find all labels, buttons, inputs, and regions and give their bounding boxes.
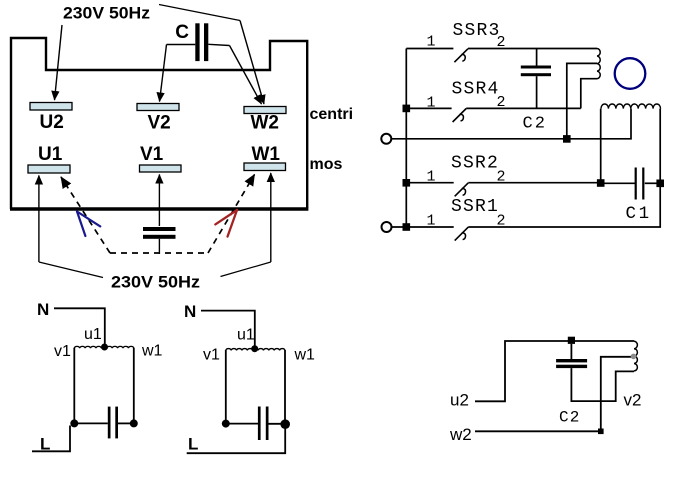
- wire arrow callout to W2: [240, 21, 264, 105]
- wire arrow up into U1: [38, 176, 40, 263]
- wire arrow cap to V2: [160, 45, 167, 102]
- wire N lead 2: [201, 311, 255, 346]
- terminal box bottom wall: [10, 207, 308, 210]
- svg-text:v1: v1: [54, 343, 71, 360]
- red direction arrow: [215, 210, 237, 237]
- dashed swap wire U1 side: [61, 177, 110, 253]
- svg-text:230V 50Hz: 230V 50Hz: [63, 5, 150, 23]
- wire C1 right lead: [645, 182, 660, 184]
- svg-text:W1: W1: [252, 144, 281, 165]
- terminal circle top: [381, 134, 391, 144]
- winding 2: [226, 349, 285, 351]
- svg-text:SSR4: SSR4: [452, 80, 500, 100]
- winding main (vertical): [597, 49, 600, 79]
- wire u2 lead: [475, 341, 634, 401]
- wire arrow up into W1: [270, 173, 272, 262]
- capacitor C2 (bottom diagram): [556, 359, 587, 368]
- switch SSR3 tail: [462, 54, 466, 61]
- junction SSR4 left: [403, 105, 411, 113]
- wire SSR3 right to coil: [468, 48, 597, 50]
- dashed swap wire W1 side: [208, 175, 255, 254]
- wire winding2 right leg: [284, 350, 286, 424]
- svg-text:u1: u1: [237, 327, 255, 344]
- wire cap right lead: [208, 44, 229, 45]
- terminal V2: [137, 104, 179, 111]
- wire SSR4 right: [466, 107, 581, 109]
- wire aux coil right lead: [659, 109, 661, 183]
- junction C1 left: [597, 179, 605, 187]
- wire below run capacitor: [158, 239, 160, 254]
- wire aux coil left lead: [600, 109, 602, 183]
- node cap left 2: [222, 420, 230, 428]
- svg-text:V1: V1: [140, 144, 164, 165]
- terminal circle bottom: [382, 222, 392, 232]
- svg-text:C2: C2: [523, 115, 547, 134]
- terminal W1: [244, 163, 286, 171]
- svg-text:230V 50Hz: 230V 50Hz: [111, 274, 200, 292]
- wire winding1 left leg: [73, 348, 75, 424]
- switch SSR2 blade: [455, 183, 469, 197]
- wire coil centre tap: [567, 63, 597, 138]
- switch SSR4 blade: [453, 109, 467, 123]
- winding v2 (vertical): [634, 341, 637, 371]
- winding aux (horizontal): [601, 104, 661, 109]
- wire SSR4 left: [406, 107, 451, 109]
- wire arrow 230V to U2: [55, 25, 63, 100]
- svg-text:centri: centri: [310, 106, 354, 123]
- terminal box outline: [11, 38, 307, 209]
- wire hook from coil bottom: [581, 79, 597, 109]
- wire SSR2 left: [406, 182, 453, 184]
- svg-text:w1: w1: [294, 347, 316, 364]
- node winding tap (gray): [631, 354, 637, 360]
- terminal U2: [30, 103, 72, 111]
- terminal V1: [140, 165, 182, 172]
- wire N lead: [54, 308, 105, 344]
- node u1 tap: [101, 344, 108, 351]
- svg-text:C1: C1: [626, 204, 652, 224]
- svg-text:w2: w2: [449, 425, 472, 444]
- wire arrow cap to W2: [230, 46, 262, 105]
- svg-text:C: C: [175, 22, 189, 43]
- wire L lead 1: [32, 426, 70, 452]
- switch SSR1 blade: [455, 227, 469, 241]
- wire U1 callout: [39, 262, 103, 278]
- junction SSR2 left: [403, 179, 411, 187]
- terminal W2: [244, 107, 286, 114]
- switch SSR2 tail: [462, 188, 466, 195]
- capacitor 2: [258, 407, 269, 441]
- terminal U1: [28, 165, 70, 173]
- wire SSR1 left: [392, 226, 454, 228]
- node u1 tap 2: [251, 345, 258, 352]
- svg-text:W2: W2: [251, 113, 280, 134]
- node cap right 2: [280, 419, 290, 429]
- wire L lead 2: [187, 424, 286, 453]
- wire cap 2 left lead: [226, 423, 259, 425]
- svg-text:SSR1: SSR1: [451, 197, 499, 217]
- junction coil tap: [563, 135, 571, 143]
- switch SSR3 blade: [454, 49, 468, 63]
- svg-text:U2: U2: [40, 112, 64, 133]
- capacitor C2 lead bottom: [536, 76, 538, 108]
- capacitor C2: [521, 66, 551, 77]
- capacitor C (top): [195, 23, 208, 61]
- node cap left 1: [70, 419, 78, 427]
- svg-text:w1: w1: [141, 343, 163, 360]
- svg-text:N: N: [184, 302, 196, 321]
- capacitor C1: [635, 168, 645, 200]
- wire arrow up into V1: [158, 175, 160, 227]
- svg-text:v2: v2: [624, 391, 642, 410]
- svg-text:L: L: [188, 435, 198, 454]
- wire cap 1 right lead: [118, 422, 134, 424]
- wire cap 1 left lead: [74, 422, 108, 424]
- switch SSR4 tail: [460, 114, 464, 121]
- wire W1 callout: [221, 262, 271, 277]
- switch SSR1 tail: [462, 233, 466, 240]
- svg-text:U1: U1: [38, 144, 63, 165]
- motor circle: [615, 58, 646, 89]
- svg-text:V2: V2: [148, 113, 171, 134]
- junction SSR1 left: [403, 223, 411, 231]
- capacitor C2 lead top: [536, 49, 538, 66]
- node cap right 1: [130, 419, 138, 427]
- wire winding2 left leg: [225, 350, 227, 424]
- wire from top terminal: [391, 109, 631, 139]
- blue direction arrow: [77, 212, 100, 237]
- svg-text:SSR2: SSR2: [451, 153, 499, 173]
- svg-text:u1: u1: [84, 326, 102, 343]
- wire callout from 230V label to W2 arrow: [159, 5, 240, 21]
- wire C2b bottom lead: [571, 368, 634, 401]
- wire w2 lead: [475, 357, 633, 432]
- wire left bus vertical: [405, 49, 407, 228]
- wire SSR1 right: [468, 187, 660, 227]
- wire C2b top lead: [570, 344, 572, 359]
- dashed swap wire bottom: [110, 252, 208, 254]
- run capacitor below box: [143, 227, 176, 239]
- junction top: [568, 337, 575, 344]
- svg-text:SSR3: SSR3: [453, 21, 501, 41]
- winding 1: [74, 346, 134, 348]
- junction C1 right: [656, 180, 664, 188]
- capacitor 1: [108, 407, 118, 439]
- svg-text:u2: u2: [450, 391, 469, 410]
- junction w2 corner: [598, 429, 604, 435]
- wire cap left lead: [167, 44, 196, 46]
- wire C1 left lead: [601, 182, 635, 184]
- svg-text:v1: v1: [203, 347, 220, 364]
- svg-text:C2: C2: [559, 409, 581, 427]
- svg-text:mos: mos: [310, 156, 343, 173]
- wire SSR3 left: [406, 48, 453, 50]
- svg-text:N: N: [37, 300, 49, 319]
- wire cap 2 right lead: [269, 423, 286, 425]
- wire winding1 right leg: [133, 348, 135, 424]
- wire SSR2 right: [468, 182, 600, 184]
